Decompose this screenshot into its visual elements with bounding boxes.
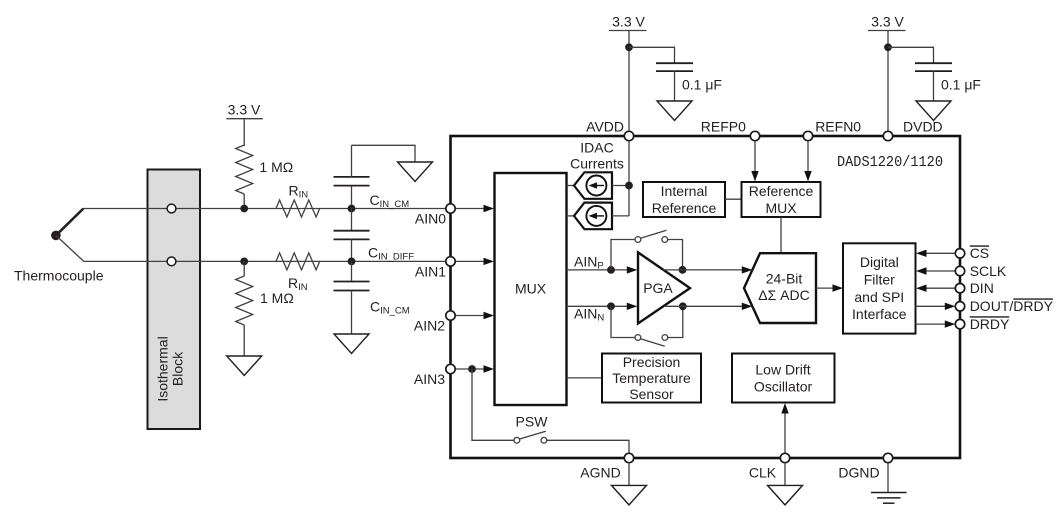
junction AVDD bypass: [625, 43, 633, 51]
svg-text:Digital: Digital: [860, 254, 899, 270]
pin DRDY: [916, 316, 1011, 332]
PGA bypass switch top: [611, 230, 683, 270]
junction IDAC1 AVDD: [625, 182, 633, 190]
wire MUX to PGA positive: [567, 269, 628, 271]
junction DVDD bypass: [884, 43, 892, 51]
current source IDAC1: [574, 172, 612, 199]
resistor RIN top: [276, 183, 320, 218]
svg-text:DRDY: DRDY: [970, 316, 1010, 332]
ground (AVDD cap): [657, 101, 692, 121]
thermocouple: [14, 209, 104, 284]
svg-text:CS: CS: [970, 245, 989, 261]
svg-text:AIN3: AIN3: [414, 371, 445, 387]
junction top 1Mohm: [240, 205, 248, 213]
svg-text:Filter: Filter: [864, 271, 895, 287]
internal reference block: [643, 182, 725, 217]
junction PGA output bottom: [679, 302, 687, 310]
svg-text:DGND: DGND: [838, 465, 879, 481]
svg-text:Oscillator: Oscillator: [754, 379, 813, 395]
svg-text:Block: Block: [170, 351, 186, 386]
pin DIN: [916, 280, 994, 296]
pin CLK: [749, 453, 790, 485]
3.3 V supply label (DVDD): [868, 14, 906, 31]
pin REFP0: [701, 119, 760, 141]
wire resistor to node: [243, 194, 245, 209]
capacitor 0.1uF DVDD: [915, 63, 981, 101]
wire cap to ground (top): [352, 145, 416, 162]
svg-text:CIN_CM: CIN_CM: [370, 299, 410, 317]
svg-text:1 MΩ: 1 MΩ: [260, 290, 294, 306]
svg-text:AGND: AGND: [580, 465, 620, 481]
wire to DVDD bypass cap: [888, 47, 934, 63]
arrow into PGA positive: [627, 266, 638, 273]
svg-text:MUX: MUX: [765, 200, 797, 216]
3.3 V supply label (AVDD): [609, 14, 647, 31]
resistor 1 Mohm pullup: [236, 145, 294, 194]
svg-text:REFP0: REFP0: [701, 119, 746, 135]
svg-text:Currents: Currents: [570, 156, 624, 172]
IDAC label: [570, 140, 624, 172]
wire CLK to oscillator: [781, 403, 788, 458]
wire internal reference to reference mux: [725, 198, 742, 200]
svg-text:IDAC: IDAC: [580, 140, 613, 156]
isothermal block: [148, 170, 201, 430]
current source IDAC2: [574, 203, 612, 230]
arrow into PGA negative: [627, 303, 638, 310]
ADC 24-bit delta-sigma: [744, 253, 816, 323]
chip ADS1220/1120 outline: [451, 136, 961, 458]
pin AVDD: [586, 119, 634, 141]
wire AIN3 to PSW: [472, 369, 514, 440]
junction AINP bypass: [607, 266, 615, 274]
wire 3.3V to resistor: [243, 119, 245, 146]
wire REFP0 to reference mux: [751, 141, 758, 182]
svg-text:Internal: Internal: [661, 183, 708, 199]
wire AVDD internal rail: [628, 141, 630, 216]
pin AIN2: [414, 311, 494, 334]
svg-text:1 MΩ: 1 MΩ: [259, 159, 293, 175]
ground (AGND): [612, 485, 647, 505]
svg-text:AVDD: AVDD: [586, 119, 624, 135]
wire 3.3V to DVDD pin: [887, 31, 889, 137]
pin DGND: [838, 453, 892, 492]
svg-text:DVDD: DVDD: [903, 119, 943, 135]
svg-text:PGA: PGA: [643, 280, 673, 296]
capacitor 0.1uF AVDD: [656, 63, 722, 101]
junction top CIN node: [348, 205, 356, 213]
svg-text:0.1 μF: 0.1 μF: [941, 77, 981, 93]
svg-text:Temperature: Temperature: [612, 370, 691, 386]
svg-text:Thermocouple: Thermocouple: [14, 268, 104, 284]
svg-text:PSW: PSW: [516, 414, 549, 430]
svg-text:3.3 V: 3.3 V: [612, 14, 645, 30]
svg-text:RIN: RIN: [289, 183, 309, 201]
precision temperature sensor block: [567, 354, 702, 403]
digital filter and SPI block: [843, 243, 916, 333]
svg-text:CLK: CLK: [749, 465, 777, 481]
capacitor CIN_CM top: [334, 145, 410, 210]
svg-text:AINN: AINN: [574, 306, 604, 324]
PGA bypass switch bottom: [611, 306, 683, 346]
capacitor CIN_DIFF: [334, 209, 415, 263]
svg-text:3.3 V: 3.3 V: [871, 14, 904, 30]
isothermal block terminal top: [167, 204, 176, 213]
MUX block: [495, 173, 567, 405]
svg-text:AIN0: AIN0: [415, 211, 446, 227]
svg-text:Sensor: Sensor: [629, 386, 674, 402]
reference mux block: [742, 182, 821, 217]
pin CS: [916, 245, 989, 261]
svg-text:Reference: Reference: [749, 183, 814, 199]
3.3 V supply label (left): [226, 102, 262, 119]
ground (top CIN_CM): [398, 162, 433, 182]
wire IDAC1 to AVDD rail: [612, 185, 629, 187]
wire ADC to digital filter: [816, 284, 843, 291]
pin AGND: [580, 453, 633, 485]
wire 3.3V to AVDD pin: [628, 31, 630, 137]
isothermal block terminal bottom: [167, 257, 176, 266]
svg-text:MUX: MUX: [515, 281, 547, 297]
pin DVDD: [883, 119, 942, 141]
svg-text:Low Drift: Low Drift: [755, 362, 810, 378]
svg-text:ΔΣ ADC: ΔΣ ADC: [758, 287, 809, 303]
ground (DVDD cap): [916, 101, 951, 121]
wire IDAC2 to AVDD rail: [612, 215, 629, 217]
pin AIN1: [415, 257, 494, 280]
earth ground (DGND): [871, 493, 907, 504]
ground (CLK): [768, 485, 803, 505]
svg-text:Interface: Interface: [852, 306, 907, 322]
wire reference mux to ADC: [780, 217, 782, 252]
wire MUX to PGA negative: [567, 305, 628, 307]
ground (bottom CIN_CM): [334, 334, 369, 354]
svg-text:Reference: Reference: [652, 200, 717, 216]
wire bottom thermocouple lead to AIN1: [84, 260, 446, 262]
switch PSW: [514, 414, 548, 444]
svg-text:3.3 V: 3.3 V: [228, 102, 261, 118]
wire PSW to AGND pin: [547, 440, 629, 458]
wire REFN0 to reference mux: [804, 141, 811, 182]
wire MUX to IDAC1: [567, 185, 575, 187]
wire PGA to ADC negative: [664, 303, 752, 310]
pin REFN0: [803, 119, 861, 141]
junction PGA output top: [679, 266, 687, 274]
svg-text:DADS1220/1120: DADS1220/1120: [837, 154, 943, 171]
svg-text:Precision: Precision: [623, 354, 681, 370]
svg-text:AIN1: AIN1: [415, 264, 446, 280]
svg-text:SCLK: SCLK: [970, 263, 1007, 279]
svg-text:DIN: DIN: [970, 280, 994, 296]
wire MUX to IDAC2: [567, 215, 575, 217]
svg-text:AINP: AINP: [574, 254, 604, 272]
low drift oscillator block: [732, 354, 835, 403]
wire to AVDD bypass cap: [629, 47, 675, 63]
wire top thermocouple lead to AIN0: [83, 208, 446, 210]
svg-text:CIN_DIFF: CIN_DIFF: [368, 245, 414, 263]
svg-text:24-Bit: 24-Bit: [766, 271, 803, 287]
svg-text:and SPI: and SPI: [854, 289, 904, 305]
pin DOUT/DRDY: [916, 298, 1054, 314]
ground (1 Mohm pulldown): [227, 356, 262, 376]
pin AIN0: [415, 204, 494, 227]
junction AIN3 PSW branch: [468, 365, 476, 373]
resistor 1 Mohm pulldown: [236, 261, 294, 356]
svg-text:0.1 μF: 0.1 μF: [682, 77, 722, 93]
op-amp PGA: [638, 252, 690, 323]
wire PGA to ADC positive: [663, 266, 752, 273]
junction bottom CIN node: [348, 258, 356, 266]
svg-text:CIN_CM: CIN_CM: [370, 192, 410, 210]
svg-text:Isothermal: Isothermal: [155, 336, 171, 401]
capacitor CIN_CM bottom: [334, 261, 410, 334]
pin SCLK: [916, 263, 1007, 279]
svg-text:DOUT/DRDY: DOUT/DRDY: [970, 298, 1054, 314]
svg-text:AIN2: AIN2: [414, 318, 445, 334]
junction bottom 1Mohm: [240, 258, 248, 266]
resistor RIN bottom: [276, 253, 320, 293]
svg-text:REFN0: REFN0: [815, 119, 861, 135]
junction AINN bypass: [607, 302, 615, 310]
pin AIN3: [414, 364, 494, 387]
